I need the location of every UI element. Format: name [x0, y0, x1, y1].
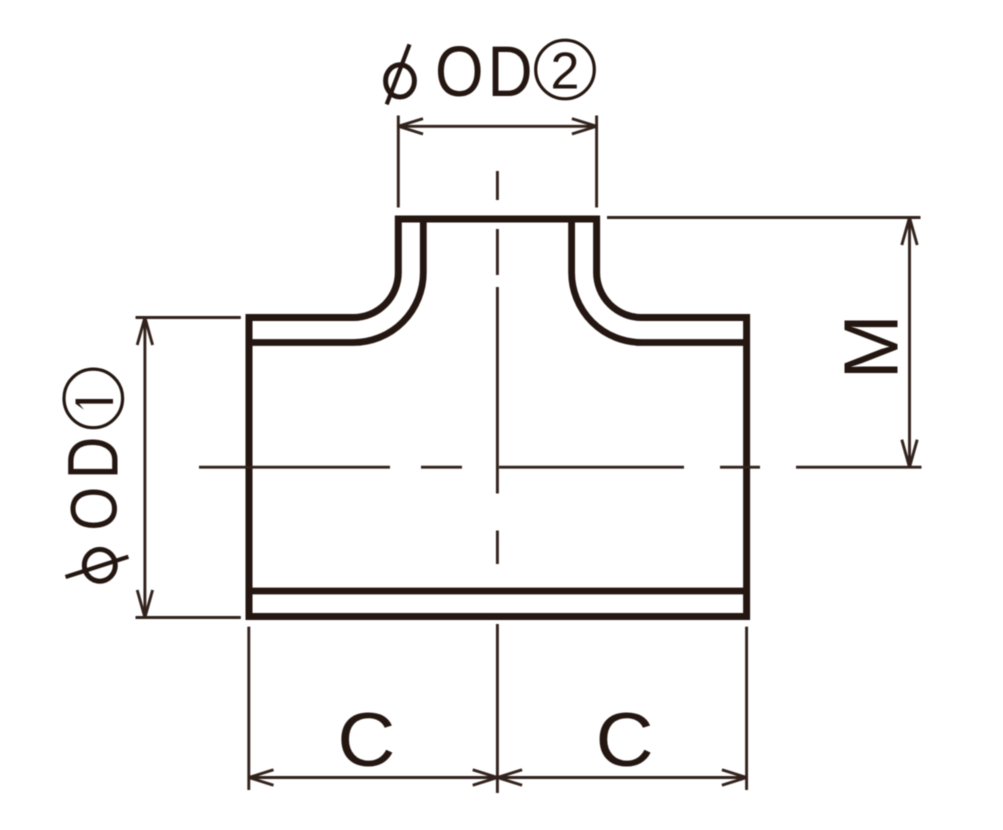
vertical centerline	[496, 171, 499, 564]
label phi OD1: digit 1 (rotated)	[76, 399, 114, 410]
extension line right	[745, 627, 748, 790]
dimension line	[398, 125, 596, 128]
dimension line	[143, 318, 146, 618]
tee fitting outer contour	[249, 219, 747, 617]
svg-text:D: D	[53, 437, 132, 480]
label M (rotated)	[829, 314, 914, 379]
arrow mid pointing left	[497, 770, 522, 785]
svg-text:2: 2	[551, 43, 580, 101]
tee fitting inner contour bottom	[249, 588, 747, 595]
extension line bottom	[796, 466, 922, 469]
extension line middle	[496, 624, 499, 793]
label phi OD1: circled 1	[64, 369, 123, 428]
extension line left	[247, 627, 250, 790]
extension line bottom	[136, 616, 241, 619]
arrow far left	[249, 770, 274, 785]
dimension line	[249, 776, 747, 779]
svg-text:M: M	[829, 314, 914, 379]
arrow mid pointing right	[473, 770, 498, 785]
extension line top	[607, 216, 921, 219]
svg-text:OD: OD	[435, 32, 537, 112]
label phi OD2: circled 2	[536, 40, 595, 99]
dimension line	[908, 218, 911, 468]
extension line right	[595, 116, 598, 208]
tee fitting inner contour top-right	[572, 222, 747, 343]
label phi OD1: phi symbol (rotated)	[66, 549, 129, 581]
arrow top	[902, 218, 917, 246]
dimension phi OD1 (left)	[136, 318, 241, 618]
tee fitting inner contour top-left	[249, 222, 423, 343]
arrow left	[398, 119, 423, 134]
arrow bottom	[137, 590, 152, 618]
horizontal centerline	[199, 466, 760, 469]
label phi OD2: phi symbol	[386, 44, 415, 104]
dimension phi OD2 (top)	[398, 116, 596, 208]
dimension C C (bottom)	[249, 624, 747, 793]
svg-text:O: O	[57, 487, 131, 531]
arrow top	[137, 318, 152, 346]
label phi OD1: letters OD (rotated)	[57, 487, 131, 531]
svg-text:C: C	[596, 697, 654, 782]
arrow right	[572, 119, 597, 134]
extension line left	[397, 116, 400, 208]
arrow far right	[722, 770, 747, 785]
extension line top	[136, 316, 241, 319]
svg-text:C: C	[337, 697, 395, 782]
dimension M (right)	[607, 218, 922, 468]
arrow bottom	[902, 440, 917, 468]
